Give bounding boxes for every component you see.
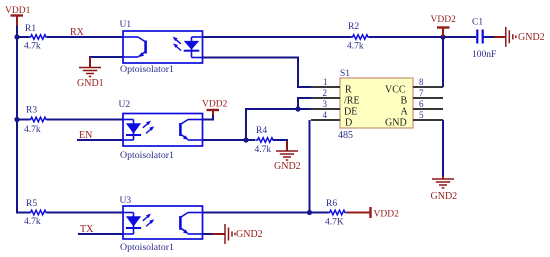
svg-text:VDD2: VDD2 xyxy=(374,210,400,220)
svg-text:7: 7 xyxy=(419,88,424,98)
wire: rail to R1 xyxy=(17,36,30,38)
wire: EN to U2 LED cathode xyxy=(77,139,123,141)
IC S1 (485) xyxy=(311,69,443,141)
LED inside U3 (left) xyxy=(123,213,141,235)
svg-text:R3: R3 xyxy=(26,106,37,116)
ground GND2 right of U3 (bar style) xyxy=(212,224,263,244)
wire: rail to R3 xyxy=(17,119,30,121)
wire: R2 to C1 through VDD2 node xyxy=(369,36,476,38)
svg-text:1: 1 xyxy=(323,77,328,87)
ground GND2 right of C1 xyxy=(494,27,545,47)
wire: U3 emitter to GND2 xyxy=(203,233,213,235)
resistor R4 xyxy=(256,138,275,143)
capacitor C1 xyxy=(477,30,482,44)
svg-text:C1: C1 xyxy=(472,18,483,28)
node junction D/R6 xyxy=(307,210,312,215)
light arrows U2 xyxy=(143,121,154,134)
pin 4 D xyxy=(311,110,352,129)
svg-text:R4: R4 xyxy=(256,126,267,136)
power VDD2 at R6 (bar style) xyxy=(347,207,400,220)
ground GND2 below S1 xyxy=(431,176,458,202)
wire: R3 to U2 xyxy=(47,119,123,121)
wire: U2 collector to VDD2 xyxy=(203,114,214,120)
svg-text:RX: RX xyxy=(70,27,85,38)
svg-text:4.7k: 4.7k xyxy=(255,145,272,155)
LED inside U2 (left) xyxy=(123,120,141,141)
svg-text:GND2: GND2 xyxy=(431,191,458,202)
wire: C1 to GND2 xyxy=(484,36,495,38)
node junction rail/R3 xyxy=(14,117,19,122)
svg-text:D: D xyxy=(345,118,352,129)
wire: /RE tie xyxy=(298,98,311,109)
opto-isolator U2 xyxy=(119,100,203,161)
svg-text:Optoisolator1: Optoisolator1 xyxy=(120,242,174,253)
wire: pin5 GND down xyxy=(442,120,444,176)
wire: pin4 D down to R6 row xyxy=(309,120,311,213)
svg-text:R2: R2 xyxy=(348,22,359,32)
svg-text:R5: R5 xyxy=(26,199,37,209)
svg-text:8: 8 xyxy=(419,77,424,87)
resistor R6 xyxy=(328,210,347,215)
light arrows U1 xyxy=(173,37,182,51)
pin 5 GND xyxy=(385,110,443,129)
svg-text:A: A xyxy=(401,107,409,118)
wire: U1 cathode to S1 pin1 xyxy=(203,58,312,88)
opto-isolator U3 xyxy=(120,196,203,253)
svg-text:GND2: GND2 xyxy=(236,229,263,240)
svg-text:U1: U1 xyxy=(120,20,132,30)
svg-text:6: 6 xyxy=(419,99,424,109)
svg-text:VDD1: VDD1 xyxy=(5,6,31,16)
svg-text:U2: U2 xyxy=(119,100,131,110)
wire: U2 emitter to R4 junction xyxy=(203,139,256,141)
pin 8 VCC xyxy=(385,77,443,96)
ground GND1 xyxy=(77,57,104,89)
wire: TX to U3 cathode xyxy=(78,233,123,235)
svg-text:4.7k: 4.7k xyxy=(24,125,41,135)
pin 2 /RE xyxy=(311,88,360,107)
node junction DE//RE xyxy=(295,106,300,111)
svg-text:485: 485 xyxy=(338,130,353,141)
transistor inside U1 (left, mirrored) xyxy=(123,37,146,57)
LED inside U1 (right) xyxy=(184,37,203,58)
transistor inside U3 (right) xyxy=(180,213,202,235)
svg-text:GND: GND xyxy=(385,118,407,129)
pin 7 B xyxy=(401,88,444,107)
svg-text:U3: U3 xyxy=(120,196,132,206)
svg-text:DE: DE xyxy=(344,107,357,118)
svg-text:4.7k: 4.7k xyxy=(24,42,41,52)
resistor R1 xyxy=(29,35,48,40)
wire: U3 collector to D junction and R6 xyxy=(203,212,329,214)
wire: VCC vertical to pin 8 xyxy=(442,37,444,87)
svg-text:VDD2: VDD2 xyxy=(202,100,228,110)
wire: R1 to U1 (net RX) xyxy=(47,36,123,38)
ground GND2 below R4 xyxy=(274,141,301,172)
power VDD1 xyxy=(5,6,31,26)
svg-text:2: 2 xyxy=(323,88,328,98)
pin 6 A xyxy=(401,99,444,118)
svg-text:R: R xyxy=(345,85,352,96)
resistor R2 xyxy=(351,35,370,40)
svg-text:/RE: /RE xyxy=(344,96,360,107)
svg-text:Optoisolator1: Optoisolator1 xyxy=(120,150,174,161)
wire: U1 emitter to GND1 xyxy=(90,57,123,67)
svg-text:VDD2: VDD2 xyxy=(431,15,457,25)
node junction VDD2/R2/C1/VCC xyxy=(440,34,445,39)
svg-text:4.7k: 4.7k xyxy=(347,42,364,52)
wire: junction up to DE and /RE xyxy=(246,109,311,140)
resistor R5 xyxy=(29,210,48,215)
pin 1 R xyxy=(311,77,352,96)
svg-text:TX: TX xyxy=(80,224,94,235)
svg-text:R1: R1 xyxy=(25,24,36,34)
wire: R4 to GND2 xyxy=(273,140,287,150)
wire: left VDD1 rail vertical xyxy=(17,25,30,213)
power VDD2 at U2 xyxy=(202,100,228,116)
resistor R3 xyxy=(29,117,48,122)
svg-text:5: 5 xyxy=(419,110,424,120)
wire: U1 collector out to R2 xyxy=(203,36,352,38)
svg-text:4.7k: 4.7k xyxy=(24,217,41,227)
svg-text:4.7K: 4.7K xyxy=(325,218,344,228)
transistor inside U2 (right) xyxy=(180,120,202,141)
svg-text:3: 3 xyxy=(323,99,328,109)
svg-text:R6: R6 xyxy=(326,199,337,209)
svg-text:GND1: GND1 xyxy=(77,78,104,89)
opto-isolator U1 xyxy=(120,20,203,75)
node junction rail/R1 xyxy=(14,34,19,39)
wire: R5 to U3 xyxy=(47,212,123,214)
svg-text:VCC: VCC xyxy=(385,85,406,96)
svg-text:Optoisolator1: Optoisolator1 xyxy=(120,64,174,75)
svg-text:100nF: 100nF xyxy=(472,50,496,60)
pin 3 DE xyxy=(311,99,357,118)
svg-text:EN: EN xyxy=(79,130,92,141)
svg-text:B: B xyxy=(401,96,408,107)
svg-text:4: 4 xyxy=(323,110,328,120)
svg-text:GND2: GND2 xyxy=(518,32,545,43)
svg-text:S1: S1 xyxy=(340,69,350,79)
svg-text:GND2: GND2 xyxy=(274,161,301,172)
light arrows U3 xyxy=(143,214,154,227)
node junction R4/DE xyxy=(243,137,248,142)
power VDD2 top xyxy=(431,15,457,37)
